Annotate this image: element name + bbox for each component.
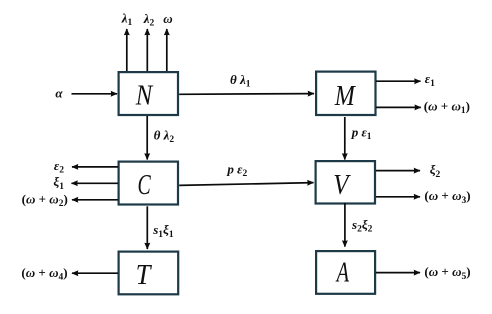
label (omega + omega3): [424, 188, 470, 206]
wire omega+omega3 output right from V: [376, 196, 420, 198]
label xi1: [53, 174, 64, 192]
wire epsilon1 output right from M: [376, 80, 421, 82]
label epsilon2: [54, 158, 64, 176]
label s1 xi1: [152, 222, 174, 240]
wire xi1 output left from C: [72, 182, 119, 184]
label s2 xi2: [351, 217, 373, 235]
wire lambda2 output up from N: [146, 29, 148, 71]
svg-text:ω: ω: [163, 11, 172, 26]
label lambda1: [121, 11, 133, 29]
wire omega output up from N: [166, 29, 168, 71]
label p epsilon2: [226, 161, 247, 179]
block N: [119, 72, 178, 115]
label (omega + omega2): [22, 191, 68, 209]
label (omega + omega5): [424, 264, 470, 282]
wire epsilon2 output left from C: [72, 166, 118, 168]
block V: [316, 161, 375, 203]
label (omega + omega4): [21, 265, 67, 283]
wire omega+omega5 output right from A: [376, 272, 420, 274]
label omega: [163, 11, 172, 26]
block M: [316, 72, 375, 115]
wire xi2 output right from V: [376, 170, 420, 172]
wire omega+omega1 output right from M: [376, 106, 421, 108]
label (omega + omega1): [424, 98, 470, 116]
block C: [119, 162, 178, 205]
wire N to C: [146, 116, 148, 160]
svg-text:C: C: [138, 169, 152, 201]
label p epsilon1: [351, 124, 372, 142]
wire lambda1 output up from N: [126, 29, 128, 71]
wire C to T: [146, 206, 148, 249]
label theta lambda2: [154, 127, 175, 145]
wire alpha input into N: [72, 93, 118, 95]
label epsilon1: [425, 71, 435, 89]
block A: [316, 251, 375, 294]
label alpha: [55, 85, 63, 100]
svg-text:N: N: [135, 80, 154, 112]
label xi2: [430, 162, 441, 180]
label lambda2: [143, 11, 155, 29]
svg-text:A: A: [335, 257, 349, 289]
svg-text:M: M: [334, 80, 356, 112]
wire N to M: [179, 93, 314, 96]
svg-text:T: T: [136, 259, 153, 291]
svg-text:α: α: [55, 85, 63, 100]
wire omega+omega2 output left from C: [72, 199, 118, 201]
wire V to A: [344, 203, 346, 247]
wire omega+omega4 output left from T: [72, 272, 118, 274]
label theta lambda1: [230, 72, 251, 90]
block T: [119, 252, 179, 295]
wire M to V: [344, 117, 346, 160]
wire C to V: [179, 183, 313, 186]
